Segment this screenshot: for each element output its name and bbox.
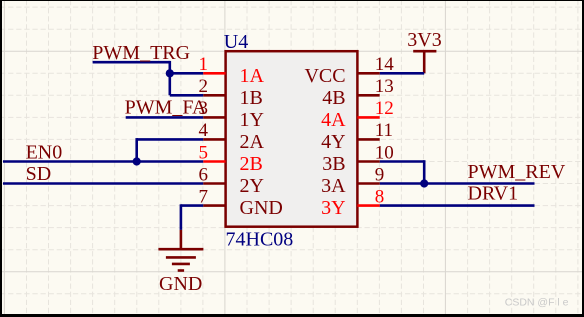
wire net EN0 [3,160,203,163]
svg-text:14: 14 [375,54,395,75]
pin 7 number [199,186,209,207]
pin 6 [203,182,225,185]
svg-text:1Y: 1Y [240,109,264,131]
pin 13 number [375,76,394,97]
wire pin4 to EN0 vertical [135,138,138,161]
pin 4 [203,138,225,141]
pin 4 number [199,120,209,141]
pin 8 name 3Y [321,197,345,219]
svg-text:10: 10 [375,142,394,163]
pin 2 [203,94,225,97]
pin 6 name 2Y [240,175,264,197]
svg-text:PWM_REV: PWM_REV [468,161,566,183]
wire net DRV1 [380,204,535,207]
svg-text:7: 7 [199,186,209,207]
svg-text:8: 8 [375,186,385,207]
svg-text:3B: 3B [322,153,345,175]
wire net PWM_FA [126,116,204,119]
wire net PWM_TRG horizontal [93,61,170,64]
pin 2 name 1B [240,87,263,109]
net label PWM_TRG [92,42,190,64]
watermark [505,297,569,309]
pin 9 name 3A [321,175,346,197]
pin 13 [357,94,379,97]
pin 11 number [375,120,393,141]
pin 3 name 1Y [240,109,264,131]
pin 11 name 4Y [321,131,345,153]
pin 1 [203,72,225,75]
svg-text:2Y: 2Y [240,175,264,197]
svg-text:PWM_FA: PWM_FA [125,97,207,119]
net label EN0 [26,142,63,164]
ground symbol GND [158,230,203,271]
svg-text:12: 12 [375,98,394,119]
svg-text:2: 2 [199,76,209,97]
svg-text:5: 5 [199,142,209,163]
svg-text:U4: U4 [224,31,248,53]
pin 12 name 4A [321,109,346,131]
pin 7 [203,204,225,207]
net label DRV1 [468,182,519,204]
value label 74HC08 [226,229,294,251]
pin 4 name 2A [240,131,265,153]
svg-text:13: 13 [375,76,394,97]
pin 14 name VCC [304,65,345,87]
svg-text:CSDN @F l e: CSDN @F l e [505,297,569,309]
pin 14 [357,72,379,75]
pin 2 number [199,76,209,97]
wire to pin 1 [170,72,204,75]
junction at EN0 branch [133,157,141,165]
svg-text:GND: GND [159,273,202,295]
svg-text:3: 3 [199,98,209,119]
wire to pin 2 [170,94,204,97]
designator U4 [224,31,248,53]
junction at PWM_REV branch [420,179,428,187]
power label 3V3 [407,29,441,51]
pin 9 number [375,164,385,185]
pin 5 [203,160,225,163]
svg-text:4Y: 4Y [321,131,345,153]
power port 3V3 [413,51,436,73]
svg-text:2B: 2B [240,153,263,175]
svg-text:1B: 1B [240,87,263,109]
svg-text:GND: GND [240,197,283,219]
pin 12 [357,116,379,119]
pin 10 [357,160,379,163]
svg-text:4A: 4A [321,109,346,131]
wire net SD [3,182,203,185]
svg-text:4: 4 [199,120,209,141]
wire pin 7 to ground vertical [180,204,183,230]
pin 6 number [199,164,209,185]
pin 12 number [375,98,394,119]
pin 5 name 2B [240,153,263,175]
pin 11 [357,138,379,141]
svg-text:3A: 3A [321,175,346,197]
pin 5 number [199,142,209,163]
svg-text:EN0: EN0 [26,142,63,164]
pin 8 number [375,186,385,207]
svg-text:PWM_TRG: PWM_TRG [92,42,190,64]
pin 7 name GND [240,197,283,219]
op-amp U1 body: IC U4 74HC08 rectangle [226,51,358,227]
ground label GND [159,273,202,295]
pin 10 name 3B [322,153,345,175]
svg-text:6: 6 [199,164,209,185]
wire pin 10 horizontal [380,160,425,163]
net label PWM_REV [468,161,566,183]
svg-text:3Y: 3Y [321,197,345,219]
svg-text:9: 9 [375,164,385,185]
pin 10 number [375,142,394,163]
wire pin 10 to pin 9 vertical [423,160,426,183]
net label SD [26,163,52,185]
pin 14 number [375,54,395,75]
junction at pin1 branch [166,69,174,77]
svg-text:VCC: VCC [304,65,345,87]
net label PWM_FA [125,97,207,119]
pin 8 [357,204,379,207]
wire 3V3 to pin 14 [380,72,425,75]
svg-text:4B: 4B [322,87,345,109]
pin 1 number [199,54,209,75]
wire net PWM_REV [380,182,535,185]
pin 9 [357,182,379,185]
svg-text:DRV1: DRV1 [468,182,519,204]
wire pin 7 horizontal [181,204,203,207]
svg-text:11: 11 [375,120,393,141]
pin 13 name 4B [322,87,345,109]
pin 3 [203,116,225,119]
wire to pin 4 [137,138,204,141]
svg-text:1A: 1A [240,65,265,87]
svg-text:SD: SD [26,163,52,185]
svg-text:2A: 2A [240,131,265,153]
svg-text:74HC08: 74HC08 [226,229,294,251]
svg-text:3V3: 3V3 [407,29,441,51]
svg-text:1: 1 [199,54,209,75]
wire net PWM_TRG vertical [169,61,172,95]
pin 3 number [199,98,209,119]
pin 1 name 1A [240,65,265,87]
